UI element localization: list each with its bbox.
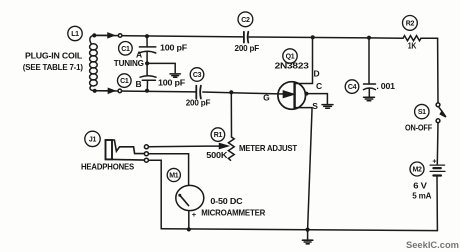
- capacitor C4 plates: [364, 84, 376, 90]
- node jack contact ring: [144, 152, 148, 156]
- node C3 out junction: [229, 90, 233, 94]
- meter M1 body: [176, 185, 204, 210]
- transistor Q1 drain lead: [295, 37, 313, 83]
- wire top rail left segment: [94, 35, 242, 37]
- wire jack tip to R1 wiper arrow: [148, 144, 227, 149]
- svg-text:A: A: [136, 50, 142, 60]
- svg-text:B: B: [136, 79, 142, 89]
- potentiometer R1 top wire: [230, 92, 232, 137]
- node coil bottom junction: [93, 89, 97, 93]
- wire C4 to ground: [368, 88, 370, 96]
- wire right rail switch to battery: [436, 123, 439, 165]
- wire ground branch C1: [147, 63, 175, 72]
- svg-text:(SEE TABLE 7-1): (SEE TABLE 7-1): [23, 62, 83, 72]
- node coil top junction: [92, 33, 96, 37]
- capacitor C2 plates: [244, 32, 248, 43]
- wire top rail right segment: [249, 37, 403, 38]
- svg-text:L1: L1: [71, 31, 79, 38]
- headphone jack J1 sleeve line: [112, 158, 144, 161]
- svg-text:C4: C4: [348, 84, 357, 91]
- svg-text:+: +: [432, 159, 436, 166]
- designator L1: [68, 26, 82, 40]
- wire source ground stub: [307, 230, 309, 240]
- svg-text:METER ADJUST: METER ADJUST: [239, 143, 298, 153]
- resistor R1 zigzag: [228, 137, 234, 160]
- svg-text:C1: C1: [120, 78, 129, 85]
- ground source: [302, 240, 312, 244]
- svg-text:1K: 1K: [408, 41, 417, 51]
- svg-text:J1: J1: [89, 136, 97, 143]
- designator C1b: [118, 74, 132, 88]
- svg-text:5 mA: 5 mA: [412, 191, 431, 201]
- node meter bottom junction: [187, 227, 191, 231]
- svg-text:MICROAMMETER: MICROAMMETER: [201, 208, 265, 218]
- transistor Q1 source lead: [295, 108, 312, 230]
- svg-text:ON-OFF: ON-OFF: [405, 122, 432, 132]
- wire jack ring to meter: [148, 154, 188, 185]
- svg-text:C: C: [316, 81, 322, 91]
- node jack contact tip: [144, 145, 148, 149]
- svg-text:PLUG-IN COIL: PLUG-IN COIL: [25, 51, 82, 61]
- node C1 branch top: [145, 34, 149, 38]
- designator R1: [211, 128, 225, 142]
- node plug socket bottom: [118, 89, 122, 93]
- svg-text:500K: 500K: [206, 150, 228, 160]
- svg-text:C3: C3: [193, 72, 202, 79]
- designator M1: [167, 168, 180, 181]
- ground case: [322, 105, 333, 109]
- meter M1 needle: [180, 195, 189, 205]
- switch S1 contacts and lever: [436, 103, 440, 107]
- svg-text:S1: S1: [418, 109, 426, 116]
- svg-text:C1: C1: [121, 46, 130, 53]
- transistor Q1 gate arrow: [278, 91, 294, 97]
- wire gate line coil to C3: [95, 91, 196, 92]
- svg-text:R1: R1: [214, 132, 223, 139]
- wire case to ground: [306, 94, 327, 104]
- svg-text:TUNING: TUNING: [114, 58, 145, 68]
- svg-text:R2: R2: [406, 20, 415, 27]
- wire C4 branch: [368, 38, 370, 84]
- transistor Q1 channel bar: [293, 83, 295, 108]
- capacitor C1A plates: [139, 46, 155, 48]
- svg-text:200 pF: 200 pF: [186, 98, 211, 108]
- designator C4: [345, 80, 359, 94]
- wire meter to bottom rail: [188, 212, 190, 230]
- node C1 mid junction: [145, 61, 149, 65]
- resistor R2 zigzag: [403, 36, 421, 41]
- designator J1: [85, 131, 100, 146]
- wire battery to bottom rail: [436, 176, 438, 231]
- svg-text:SeekIC.com: SeekIC.com: [406, 240, 459, 251]
- svg-text:0-50 DC: 0-50 DC: [210, 196, 242, 206]
- svg-text:. 001: . 001: [376, 81, 395, 91]
- wire bottom rail: [161, 229, 437, 231]
- ground C4: [364, 97, 375, 101]
- svg-text:M2: M2: [412, 167, 422, 174]
- capacitor C3 plates: [196, 86, 201, 99]
- wire plug arrow top: [96, 33, 113, 37]
- wire right rail upper: [437, 38, 439, 102]
- node plug socket top: [118, 34, 122, 38]
- wire C1A to mid: [146, 51, 148, 75]
- designator S1: [415, 104, 429, 118]
- svg-text:6 V: 6 V: [413, 181, 427, 191]
- wire C1B to gate line: [146, 80, 148, 90]
- node source bottom junction: [306, 228, 310, 232]
- svg-text:D: D: [314, 69, 320, 79]
- node jack contact sleeve: [144, 158, 148, 162]
- svg-text:G: G: [263, 92, 270, 102]
- designator C1a: [119, 42, 133, 56]
- svg-text:C2: C2: [241, 17, 250, 24]
- inductor L1 coil: [90, 35, 94, 43]
- headphone jack J1 plug body: [106, 140, 113, 159]
- svg-text:200 pF: 200 pF: [235, 43, 260, 53]
- capacitor C1B plates: [140, 76, 156, 78]
- designator R2: [403, 16, 418, 31]
- battery M2 plates: [430, 165, 445, 171]
- wire top rail after R2 to corner: [421, 37, 438, 39]
- designator C2: [238, 12, 253, 27]
- designator Q1: [283, 49, 297, 63]
- designator M2: [410, 162, 424, 176]
- wire jack sleeve down: [146, 160, 161, 229]
- svg-text:Q1: Q1: [286, 54, 295, 61]
- node drain junction: [311, 35, 315, 39]
- wire C3 to gate: [203, 92, 278, 94]
- svg-text:100 pF: 100 pF: [158, 78, 185, 88]
- svg-text:100 pF: 100 pF: [160, 43, 187, 53]
- svg-text:2N3823: 2N3823: [275, 61, 310, 71]
- node C4 top junction: [367, 36, 371, 40]
- node C1B bottom: [145, 89, 149, 93]
- transistor Q1 envelope: [278, 82, 306, 110]
- wire plug arrow bottom: [97, 89, 114, 93]
- ground C1 tuning: [170, 74, 180, 77]
- svg-text:M1: M1: [169, 173, 179, 180]
- wire C1 branch top: [146, 36, 148, 47]
- designator C3: [190, 68, 204, 82]
- svg-text:S: S: [312, 101, 318, 111]
- headphone jack J1 tip and contacts: [112, 140, 144, 154]
- node case junction: [304, 92, 308, 96]
- svg-text:HEADPHONES: HEADPHONES: [81, 162, 134, 172]
